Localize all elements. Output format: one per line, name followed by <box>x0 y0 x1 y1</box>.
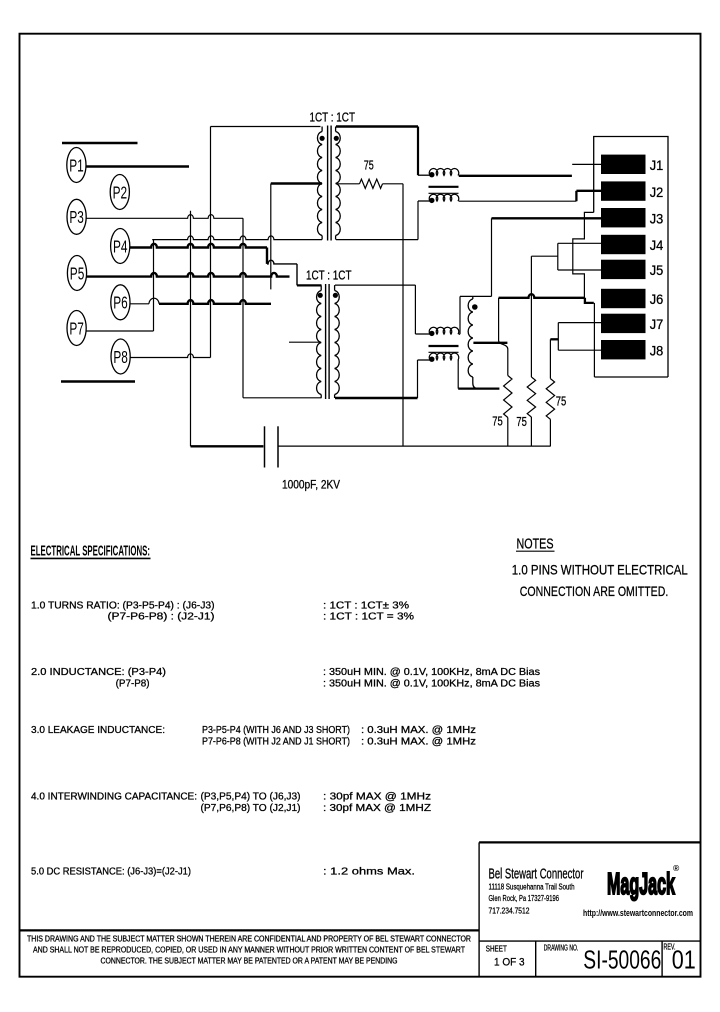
svg-text:J2: J2 <box>650 184 664 200</box>
svg-text:75: 75 <box>556 395 567 409</box>
svg-text:NOTES: NOTES <box>517 537 554 553</box>
svg-text:Bel Stewart Connector: Bel Stewart Connector <box>489 867 584 883</box>
svg-text:AND SHALL NOT BE REPRODUCED, C: AND SHALL NOT BE REPRODUCED, COPIED, OR … <box>33 946 465 955</box>
svg-text:717.234.7512: 717.234.7512 <box>489 905 530 915</box>
svg-text:P7-P6-P8 (WITH J2 AND J1 SHORT: P7-P6-P8 (WITH J2 AND J1 SHORT) <box>202 737 350 748</box>
svg-text:P7: P7 <box>69 318 84 338</box>
svg-text:ELECTRICAL SPECIFICATIONS:: ELECTRICAL SPECIFICATIONS: <box>31 543 151 560</box>
svg-text:SI-50066: SI-50066 <box>583 944 661 974</box>
svg-text:P2: P2 <box>113 182 128 202</box>
svg-text:: 1CT : 1CT = 3%: : 1CT : 1CT = 3% <box>323 612 414 623</box>
svg-text:4.0 INTERWINDING CAPACITANCE:: 4.0 INTERWINDING CAPACITANCE: <box>31 792 197 803</box>
svg-text:P3: P3 <box>69 207 84 227</box>
svg-text:01: 01 <box>672 944 696 974</box>
svg-text:J5: J5 <box>650 262 664 278</box>
svg-text:®: ® <box>673 863 680 873</box>
svg-text:(P7-P8): (P7-P8) <box>116 679 150 690</box>
svg-text:J6: J6 <box>650 291 664 307</box>
svg-text:P1: P1 <box>69 155 84 175</box>
svg-text:J1: J1 <box>650 157 664 173</box>
svg-text:SHEET: SHEET <box>486 944 507 953</box>
svg-text:THIS DRAWING AND THE SUBJECT M: THIS DRAWING AND THE SUBJECT MATTER SHOW… <box>27 935 471 944</box>
svg-text:P8: P8 <box>113 347 128 367</box>
svg-text:P3-P5-P4 (WITH J6 AND J3 SHORT: P3-P5-P4 (WITH J6 AND J3 SHORT) <box>202 725 350 736</box>
svg-text:P4: P4 <box>113 236 128 256</box>
svg-text:P6: P6 <box>113 293 128 313</box>
svg-text:(P7-P6-P8) : (J2-J1): (P7-P6-P8) : (J2-J1) <box>108 612 215 623</box>
svg-text:J7: J7 <box>650 316 664 332</box>
svg-text:MagJack: MagJack <box>607 866 675 901</box>
svg-text:1CT : 1CT: 1CT : 1CT <box>310 110 356 124</box>
svg-text:1000pF, 2KV: 1000pF, 2KV <box>282 480 340 492</box>
svg-text:P5: P5 <box>70 263 85 283</box>
svg-text:J8: J8 <box>650 342 664 358</box>
svg-text:DRAWING NO.: DRAWING NO. <box>544 944 579 953</box>
svg-text:CONNECTION ARE OMITTED.: CONNECTION ARE OMITTED. <box>520 583 669 599</box>
svg-text:11118 Susquehanna Trail South: 11118 Susquehanna Trail South <box>489 882 575 892</box>
svg-text:: 30pf MAX @ 1MHZ: : 30pf MAX @ 1MHZ <box>323 803 431 814</box>
svg-text:3.0 LEAKAGE INDUCTANCE:: 3.0 LEAKAGE INDUCTANCE: <box>31 725 165 736</box>
svg-text:75: 75 <box>516 415 527 429</box>
svg-text:http://www.stewartconnector.co: http://www.stewartconnector.com <box>583 908 693 918</box>
svg-text:CONNECTOR. THE SUBJECT MATTER: CONNECTOR. THE SUBJECT MATTER MAY BE PAT… <box>101 957 398 966</box>
svg-text:J4: J4 <box>650 237 664 253</box>
svg-text:: 350uH MIN. @ 0.1V, 100KHz, 8: : 350uH MIN. @ 0.1V, 100KHz, 8mA DC Bias <box>323 679 540 690</box>
svg-text:: 1.2 ohms Max.: : 1.2 ohms Max. <box>323 867 415 878</box>
svg-text:Glen Rock, Pa 17327-9196: Glen Rock, Pa 17327-9196 <box>489 893 560 903</box>
svg-text:5.0 DC RESISTANCE: (J6-J3)=(J2: 5.0 DC RESISTANCE: (J6-J3)=(J2-J1) <box>31 867 191 878</box>
svg-text:: 0.3uH MAX. @ 1MHz: : 0.3uH MAX. @ 1MHz <box>361 737 476 748</box>
svg-text:(P7,P6,P8) TO (J2,J1): (P7,P6,P8) TO (J2,J1) <box>201 803 301 814</box>
svg-text:J3: J3 <box>650 210 664 226</box>
svg-text:1.0 TURNS RATIO: (P3-P5-P4) :: 1.0 TURNS RATIO: (P3-P5-P4) : (J6-J3) <box>31 601 215 612</box>
svg-text:(P3,P5,P4) TO (J6,J3): (P3,P5,P4) TO (J6,J3) <box>201 792 301 803</box>
svg-text:75: 75 <box>492 414 503 428</box>
svg-text:1 OF 3: 1 OF 3 <box>494 956 525 968</box>
svg-text:: 1CT : 1CT± 3%: : 1CT : 1CT± 3% <box>323 601 409 612</box>
svg-text:1.0 PINS WITHOUT ELECTRICAL: 1.0 PINS WITHOUT ELECTRICAL <box>512 562 688 578</box>
svg-text:: 350uH MIN. @ 0.1V, 100KHz, 8: : 350uH MIN. @ 0.1V, 100KHz, 8mA DC Bias <box>323 667 540 678</box>
svg-text:: 0.3uH MAX. @ 1MHz: : 0.3uH MAX. @ 1MHz <box>361 725 476 736</box>
svg-text:2.0 INDUCTANCE: (P3-P4): 2.0 INDUCTANCE: (P3-P4) <box>31 667 166 678</box>
svg-text:75: 75 <box>364 159 374 173</box>
svg-text:: 30pf MAX @ 1MHz: : 30pf MAX @ 1MHz <box>323 792 431 803</box>
svg-text:1CT : 1CT: 1CT : 1CT <box>306 269 352 283</box>
